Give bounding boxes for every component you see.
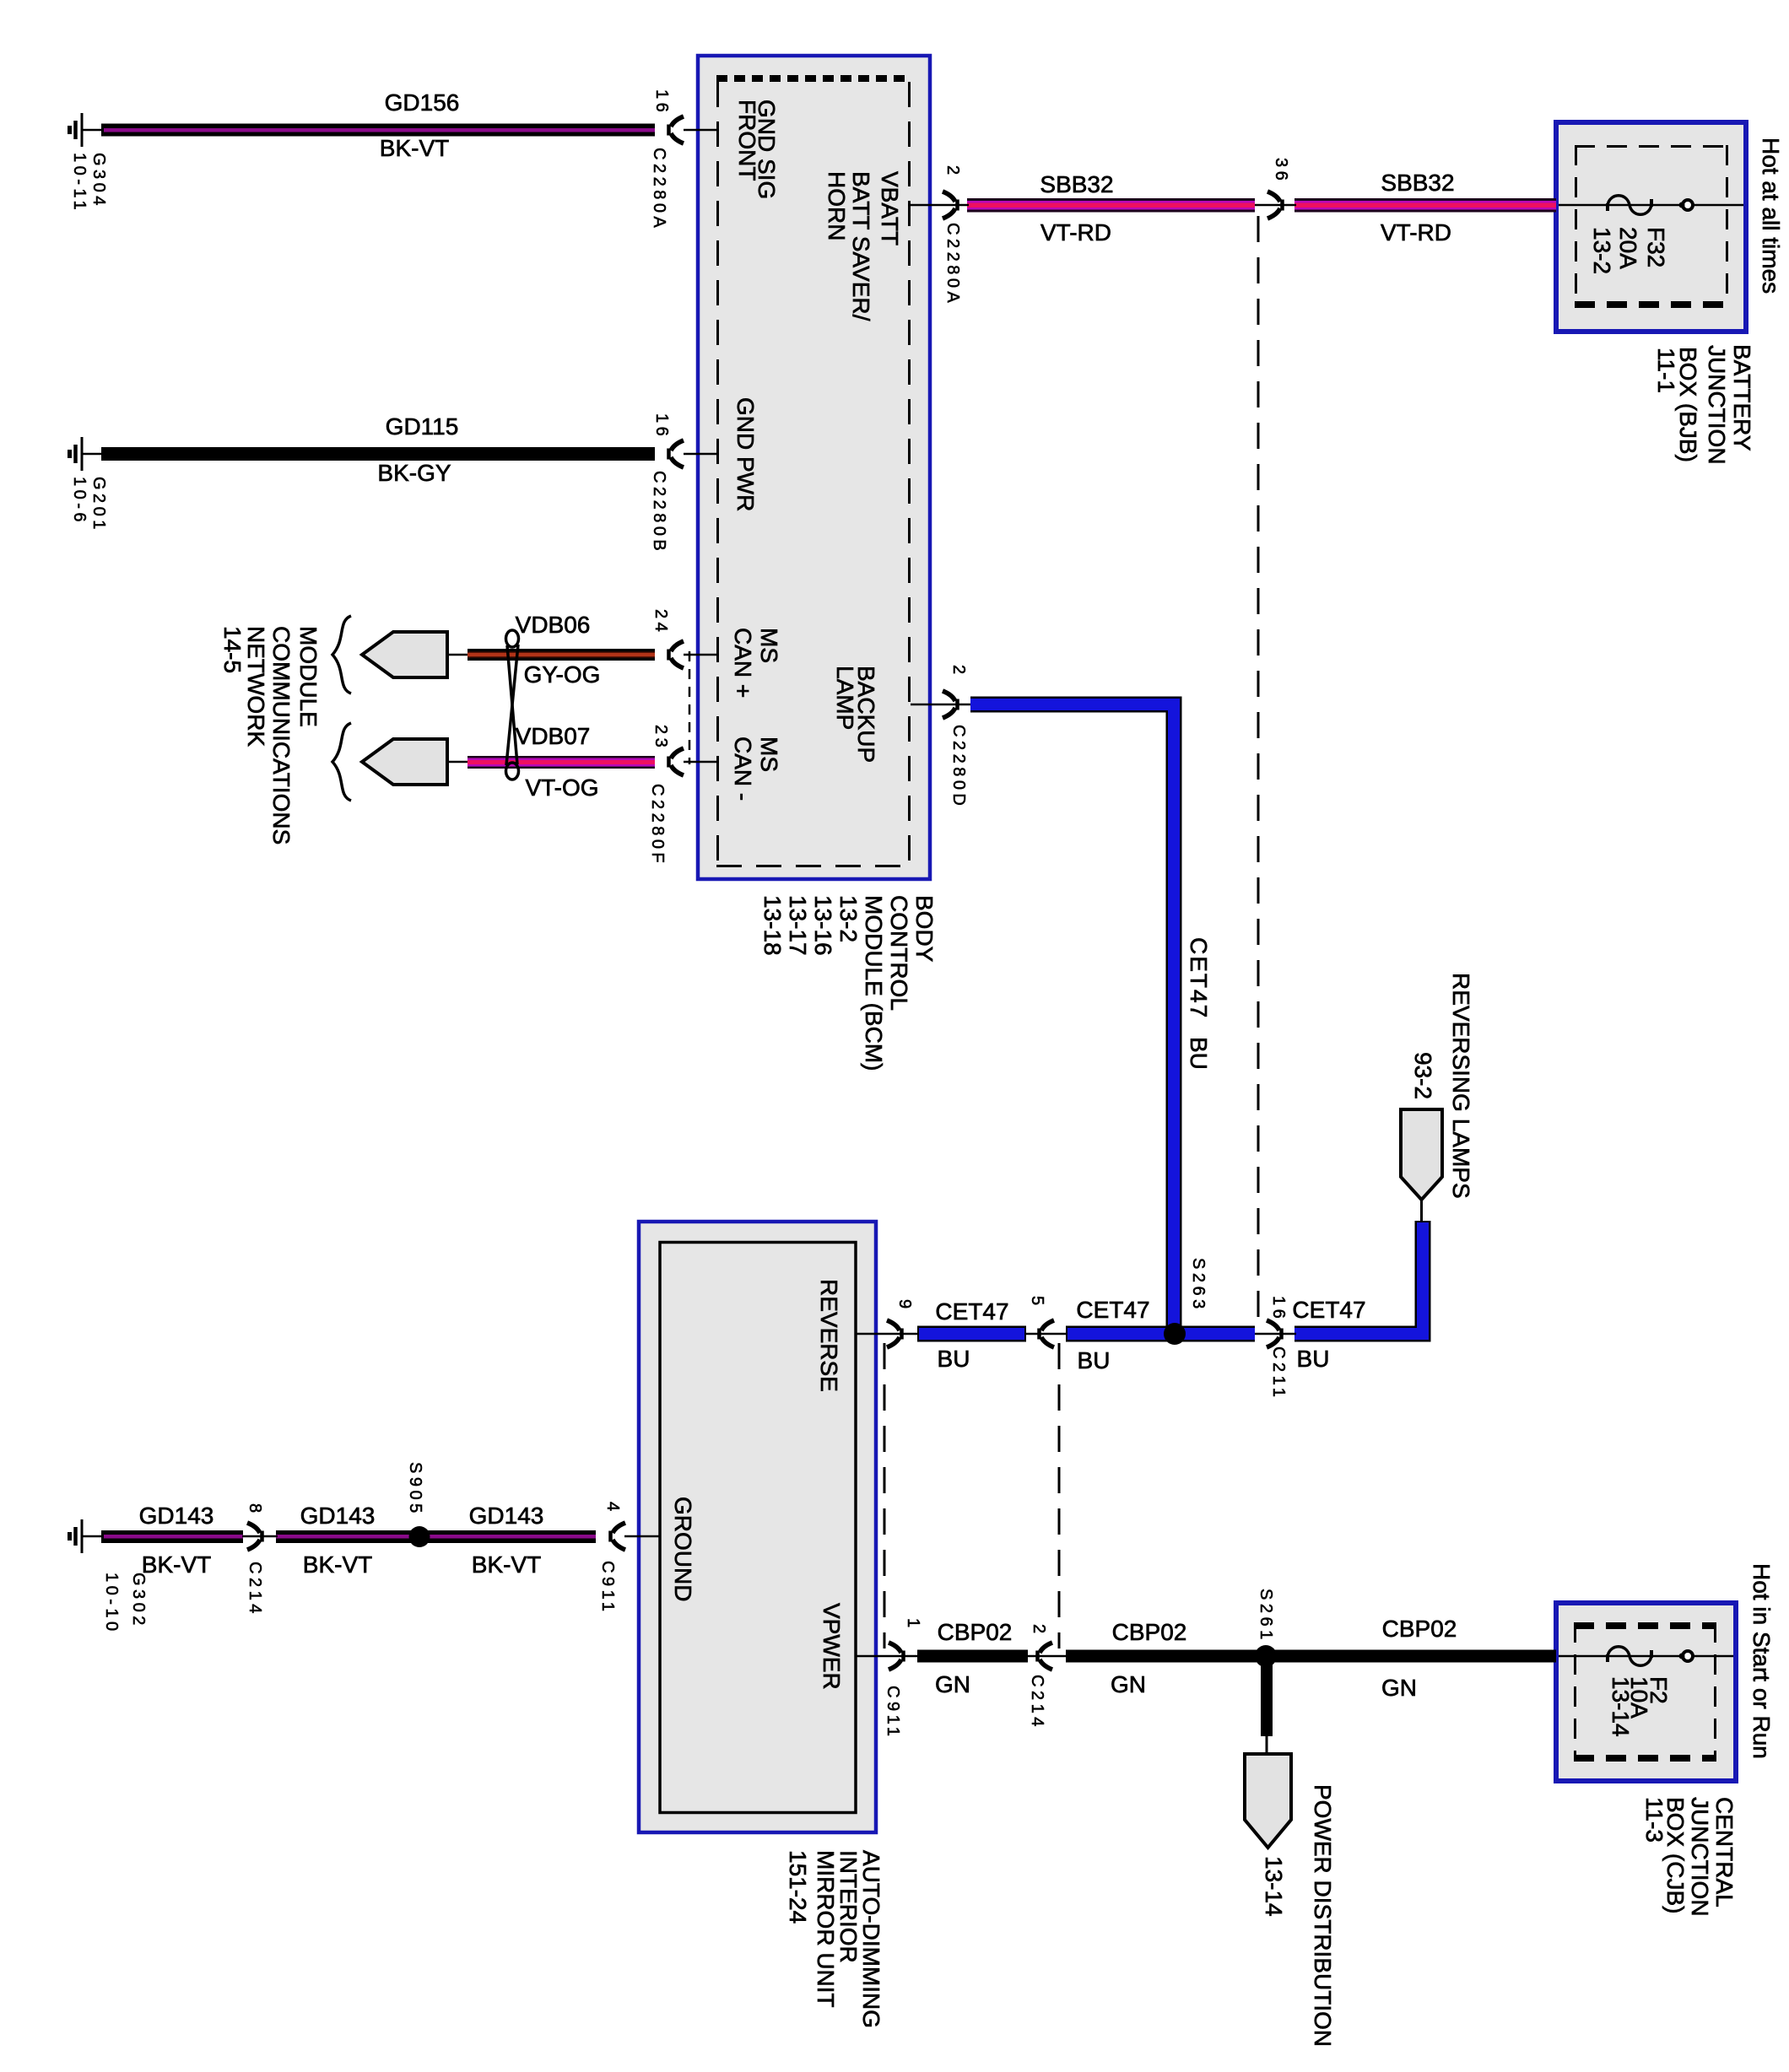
svg-text:C2280F: C2280F: [648, 784, 667, 866]
label wire CET47 segment 3: [1292, 1297, 1365, 1372]
wire GD143 BK-VT segment 1: [82, 1530, 243, 1543]
label hot in start or run: [1748, 1563, 1775, 1759]
svg-text:13-2: 13-2: [835, 895, 862, 942]
connector C2280F dashed line: [689, 651, 691, 764]
label BCM pin gnd pwr: [650, 397, 759, 554]
svg-text:BK-VT: BK-VT: [142, 1551, 211, 1578]
svg-text:Hot at all times: Hot at all times: [1758, 138, 1784, 294]
connector arrow 36 C211: [1267, 192, 1283, 219]
svg-text:C2280D: C2280D: [949, 725, 968, 809]
brace lower: [332, 723, 351, 801]
svg-text:BK-GY: BK-GY: [377, 460, 451, 486]
svg-text:1: 1: [904, 1618, 922, 1632]
svg-text:CET47: CET47: [935, 1298, 1008, 1325]
label ground G201: [70, 477, 108, 533]
svg-text:GY-OG: GY-OG: [524, 661, 601, 688]
svg-text:CENTRAL: CENTRAL: [1711, 1797, 1738, 1907]
reversing lamps connector: [1401, 1109, 1442, 1222]
svg-text:BATTERY: BATTERY: [1729, 344, 1755, 451]
label wire CBP02 segment 1: [935, 1619, 1012, 1697]
twisted pair loop upper: [506, 630, 519, 647]
label arrow 16 C211: [1269, 1296, 1288, 1400]
auto-dimming interior mirror unit box: [639, 1222, 876, 1832]
label mirror reverse: [816, 1279, 842, 1392]
svg-text:24: 24: [651, 609, 670, 635]
svg-text:S905: S905: [406, 1462, 424, 1517]
connector arrow 5 C214: [1040, 1320, 1055, 1347]
label BCM vbatt batt saver horn: [824, 165, 962, 321]
fuse F32 element: [1606, 196, 1653, 215]
label pin 1 C911: [884, 1618, 922, 1740]
wire GD156 BK-VT: [82, 124, 655, 137]
svg-text:CBP02: CBP02: [1382, 1616, 1457, 1642]
label wire GD143 segment 2: [300, 1503, 376, 1578]
connector arrow 8 C214: [247, 1523, 262, 1550]
svg-text:CET47: CET47: [1076, 1297, 1149, 1323]
label arrow 5: [1028, 1296, 1046, 1309]
label BCM pin ms can plus: [651, 609, 782, 698]
label BCM pin gnd sig front: [650, 89, 780, 231]
wire CBP02 GN segments 2 and 3: [1066, 1650, 1556, 1663]
svg-text:SBB32: SBB32: [1040, 171, 1113, 197]
label fuse F32: [1589, 227, 1669, 274]
svg-text:Hot in Start or Run: Hot in Start or Run: [1748, 1563, 1775, 1759]
label BCM pin ms can minus: [648, 725, 782, 866]
module communications network connector upper: [362, 632, 447, 677]
svg-text:VBATT: VBATT: [877, 171, 903, 246]
svg-text:MODULE (BCM): MODULE (BCM): [861, 895, 887, 1071]
svg-text:13-17: 13-17: [785, 895, 811, 956]
connector arrow pin 2 C2280D: [943, 691, 958, 718]
svg-text:4: 4: [603, 1502, 622, 1515]
svg-text:GND PWR: GND PWR: [732, 397, 759, 511]
svg-text:BU: BU: [1078, 1347, 1111, 1373]
CJB inner dashed outline: [1574, 1622, 1716, 1762]
svg-text:MIRROR UNIT: MIRROR UNIT: [813, 1850, 839, 2008]
svg-text:C911: C911: [598, 1561, 617, 1615]
svg-text:20A: 20A: [1615, 227, 1641, 269]
svg-text:SBB32: SBB32: [1381, 170, 1454, 196]
connector arrow pin 16 C2280B: [669, 440, 684, 467]
svg-text:VT-OG: VT-OG: [525, 774, 598, 801]
svg-text:GN: GN: [935, 1671, 970, 1697]
label pin 9: [895, 1299, 914, 1313]
svg-text:BU: BU: [938, 1346, 970, 1372]
connector arrow pin 24 C2280F: [669, 641, 684, 668]
connector C211 dashed line: [1257, 216, 1260, 1326]
label 36 at C211: [1272, 158, 1290, 184]
svg-text:VPWER: VPWER: [819, 1603, 845, 1690]
svg-text:GN: GN: [1381, 1675, 1417, 1701]
svg-text:MS: MS: [756, 628, 782, 663]
svg-text:CONTROL: CONTROL: [886, 895, 912, 1011]
label wire VDB07: [516, 723, 599, 801]
svg-text:GD143: GD143: [300, 1503, 376, 1529]
wire CET47 BU from BCM backup lamp pin: [970, 704, 1174, 1334]
pin line BCM ms can plus: [684, 654, 717, 656]
svg-text:23: 23: [651, 725, 670, 751]
svg-text:BODY: BODY: [911, 895, 938, 963]
svg-text:C2280A: C2280A: [650, 148, 668, 231]
twisted pair crossover lines: [506, 645, 518, 765]
svg-text:G201: G201: [89, 477, 108, 533]
svg-text:JUNCTION: JUNCTION: [1687, 1797, 1713, 1917]
svg-text:G302: G302: [129, 1573, 148, 1629]
label backup lamp: [832, 665, 968, 809]
label wire GD156: [380, 89, 460, 161]
label ground G304: [70, 153, 108, 213]
svg-text:2: 2: [949, 665, 968, 678]
svg-text:VDB07: VDB07: [516, 723, 591, 749]
label wire SBB32 segment 2: [1381, 170, 1455, 246]
svg-text:GROUND: GROUND: [670, 1497, 696, 1601]
svg-text:93-2: 93-2: [1410, 1052, 1436, 1099]
svg-text:CBP02: CBP02: [1112, 1619, 1187, 1645]
pin line BCM vbatt: [911, 204, 969, 207]
svg-text:MODULE: MODULE: [295, 626, 322, 727]
wire stub S261 to power distribution: [1261, 1663, 1273, 1755]
connector arrow 16 C211: [1267, 1320, 1282, 1347]
BJB inner dashed outline: [1575, 145, 1728, 305]
svg-text:151-24: 151-24: [785, 1850, 811, 1924]
svg-text:16: 16: [652, 413, 671, 440]
label wire GD143 segment 3: [469, 1503, 544, 1578]
svg-text:CBP02: CBP02: [938, 1619, 1013, 1645]
battery junction box BJB: [1556, 122, 1746, 332]
svg-text:GD115: GD115: [386, 413, 459, 440]
svg-text:C214: C214: [246, 1562, 264, 1617]
svg-text:14-5: 14-5: [219, 626, 246, 673]
label wire GD143 segment 1: [139, 1503, 214, 1578]
ground G201: [70, 437, 83, 471]
line at connector C214 on GD143: [242, 1535, 278, 1538]
svg-text:CET47: CET47: [1292, 1297, 1365, 1323]
svg-text:GD143: GD143: [139, 1503, 214, 1529]
svg-text:C2280A: C2280A: [943, 223, 962, 306]
pin line BCM gnd sig front: [684, 129, 717, 132]
svg-text:BU: BU: [1297, 1346, 1330, 1372]
label wire VDB06: [516, 612, 601, 688]
svg-text:COMMUNICATIONS: COMMUNICATIONS: [268, 626, 295, 844]
pin line BCM gnd pwr: [684, 453, 717, 456]
svg-text:VT-RD: VT-RD: [1381, 219, 1451, 246]
svg-text:2: 2: [1030, 1624, 1048, 1638]
svg-text:10-6: 10-6: [70, 477, 89, 526]
svg-text:REVERSING LAMPS: REVERSING LAMPS: [1448, 973, 1474, 1199]
svg-text:NETWORK: NETWORK: [243, 626, 269, 747]
line at connector C214 on CBP02: [1028, 1655, 1066, 1658]
svg-text:2: 2: [943, 165, 962, 179]
label reversing lamps: [1410, 973, 1474, 1199]
svg-text:9: 9: [895, 1299, 914, 1313]
wire CET47 BU segment mirror to arrow 5: [917, 1326, 1026, 1342]
fuse line F32: [1559, 204, 1743, 207]
label battery junction box: [1653, 344, 1755, 465]
label arrow 2 C214: [1028, 1624, 1048, 1730]
svg-text:HORN: HORN: [824, 171, 850, 240]
fuse F2 element: [1606, 1647, 1653, 1666]
label wire SBB32 segment 1: [1040, 171, 1113, 246]
ground G304: [70, 113, 83, 147]
wire GD115 BK-GY: [82, 447, 655, 461]
power distribution connector: [1245, 1754, 1291, 1848]
label body control module: [759, 895, 938, 1071]
label CET47 BU vertical: [1186, 937, 1212, 1070]
pin line mirror vpwer: [857, 1655, 919, 1658]
pin line mirror ground: [624, 1535, 660, 1538]
line at connector C211 on CET47: [1255, 1333, 1296, 1335]
svg-text:10-11: 10-11: [70, 153, 89, 213]
svg-text:REVERSE: REVERSE: [816, 1279, 842, 1392]
svg-text:S263: S263: [1189, 1258, 1208, 1313]
label power distribution: [1261, 1784, 1336, 2047]
svg-text:10-10: 10-10: [102, 1573, 121, 1635]
svg-text:GD143: GD143: [469, 1503, 544, 1529]
svg-text:13-14: 13-14: [1261, 1856, 1287, 1917]
svg-text:13-16: 13-16: [810, 895, 836, 956]
svg-text:5: 5: [1028, 1296, 1046, 1309]
svg-text:13-2: 13-2: [1589, 227, 1615, 274]
connector arrow pin 4 C911: [611, 1523, 626, 1550]
wire VDB06 GY-OG: [447, 649, 655, 661]
svg-text:S261: S261: [1257, 1589, 1275, 1643]
label arrow 8 C214: [246, 1503, 264, 1617]
svg-text:C2280B: C2280B: [650, 471, 668, 554]
label hot at all times: [1758, 138, 1784, 294]
svg-text:F32: F32: [1643, 227, 1669, 267]
fuse F32 terminal: [1679, 200, 1694, 210]
connector arrow 2 C214: [1038, 1643, 1053, 1670]
wire GD143 BK-VT segments 2 and 3: [276, 1530, 596, 1543]
connector arrow pin 1 C911: [889, 1643, 904, 1670]
splice S261: [1255, 1645, 1277, 1667]
label wire CBP02 segment 2: [1111, 1619, 1186, 1697]
wire SBB32 VT-RD segment 1: [967, 198, 1255, 213]
wire VDB07 VT-OG: [447, 756, 655, 769]
connector C911 dashed line: [884, 1343, 886, 1648]
connector arrow pin 16 C2280A: [669, 116, 684, 143]
svg-text:MS: MS: [756, 737, 782, 772]
label mirror vpwer: [819, 1603, 845, 1690]
label wire CBP02 segment 3: [1381, 1616, 1457, 1701]
label pin 4 C911: [598, 1502, 622, 1615]
svg-text:POWER DISTRIBUTION: POWER DISTRIBUTION: [1310, 1784, 1336, 2047]
svg-text:CAN -: CAN -: [730, 737, 756, 801]
svg-text:VT-RD: VT-RD: [1040, 219, 1111, 246]
connector arrow pin 2 C2280A: [943, 192, 958, 219]
svg-text:CET47: CET47: [1186, 937, 1212, 1019]
label wire CET47 segment 2: [1076, 1297, 1149, 1373]
label ground G302: [102, 1573, 148, 1635]
wire CET47 BU segment C211 to reversing lamps: [1294, 1221, 1423, 1334]
fuse line F2: [1559, 1655, 1733, 1658]
label splice S905: [406, 1462, 424, 1517]
label splice S263: [1189, 1258, 1208, 1313]
svg-text:16: 16: [1269, 1296, 1288, 1322]
svg-text:LAMP: LAMP: [832, 666, 858, 730]
svg-text:GD156: GD156: [385, 89, 460, 116]
svg-text:11-3: 11-3: [1641, 1797, 1667, 1843]
central junction box CJB: [1556, 1603, 1736, 1781]
svg-text:C911: C911: [884, 1686, 902, 1740]
svg-text:BK-VT: BK-VT: [303, 1551, 372, 1578]
svg-text:FRONT: FRONT: [734, 100, 760, 181]
pin line mirror reverse: [857, 1333, 919, 1335]
svg-text:13-18: 13-18: [759, 895, 786, 956]
wire CBP02 GN segment 1: [917, 1650, 1028, 1663]
wire CET47 BU segment arrow 5 to C211: [1066, 1326, 1255, 1342]
label auto-dimming interior mirror unit: [785, 1850, 884, 2028]
splice S905: [409, 1526, 430, 1547]
module communications network connector lower: [362, 739, 447, 785]
brace upper: [332, 616, 351, 693]
fuse F2 terminal: [1679, 1651, 1694, 1661]
label central junction box: [1641, 1797, 1738, 1917]
ground G302: [70, 1519, 83, 1553]
svg-text:G304: G304: [89, 153, 108, 209]
label fuse F2: [1608, 1676, 1672, 1737]
label mirror ground: [670, 1497, 696, 1601]
pin line BCM ms can minus: [684, 761, 717, 764]
svg-text:C211: C211: [1269, 1346, 1288, 1400]
label wire GD115: [377, 413, 458, 486]
svg-text:BU: BU: [1186, 1037, 1212, 1070]
svg-text:16: 16: [652, 89, 671, 116]
svg-text:11-1: 11-1: [1653, 348, 1679, 393]
twisted pair loop lower: [506, 763, 519, 780]
connector arrow pin 9 C911: [887, 1320, 902, 1347]
connector C214 dashed line: [1058, 1343, 1061, 1648]
svg-text:CAN +: CAN +: [730, 628, 756, 698]
label wire CET47 segment 1: [935, 1298, 1008, 1372]
connector arrow pin 23 C2280F: [669, 748, 684, 775]
line at connector C214 on CET47: [1026, 1333, 1066, 1335]
svg-text:BATT SAVER/: BATT SAVER/: [848, 171, 874, 321]
wire SBB32 VT-RD segment 2: [1294, 198, 1556, 213]
svg-text:JUNCTION: JUNCTION: [1704, 345, 1730, 465]
body control module BCM box: [698, 56, 930, 879]
svg-text:BK-VT: BK-VT: [472, 1551, 541, 1578]
pin line BCM backup lamp: [911, 704, 970, 706]
BCM inner dashed outline: [716, 78, 911, 866]
splice S263: [1164, 1323, 1186, 1345]
svg-text:8: 8: [246, 1503, 264, 1517]
label module communications network: [219, 626, 322, 844]
svg-text:VDB06: VDB06: [516, 612, 591, 638]
svg-text:13-14: 13-14: [1608, 1676, 1634, 1737]
svg-text:BK-VT: BK-VT: [380, 135, 449, 161]
svg-text:GN: GN: [1111, 1671, 1146, 1697]
line at connector C211 on SBB32: [1255, 204, 1296, 207]
svg-text:36: 36: [1272, 158, 1290, 184]
label splice S261: [1257, 1589, 1275, 1643]
svg-text:C214: C214: [1028, 1675, 1046, 1730]
